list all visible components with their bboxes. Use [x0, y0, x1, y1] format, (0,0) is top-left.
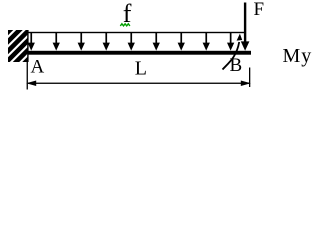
moment arrow at B	[223, 34, 243, 70]
svg-text:L: L	[135, 58, 147, 80]
beam A-B	[28, 51, 252, 55]
dimension line L	[26, 81, 251, 87]
svg-text:f: f	[123, 0, 132, 28]
distributed load arrow 2	[53, 32, 60, 51]
distributed load arrow 9	[227, 32, 234, 51]
svg-text:A: A	[31, 56, 45, 77]
distributed load arrow 5	[128, 32, 135, 51]
right extension line	[249, 68, 250, 88]
distributed load top line	[28, 32, 245, 33]
distributed load arrow 7	[178, 32, 185, 51]
distributed load arrow 1	[28, 32, 35, 51]
concentrated force F arrow	[241, 3, 250, 51]
distributed load arrow 3	[78, 32, 85, 51]
distributed load arrow 6	[153, 32, 160, 51]
svg-text:My: My	[283, 45, 313, 67]
fixed support wall hatch at A	[0, 26, 62, 66]
left extension line	[27, 62, 28, 90]
wall face vertical edge	[27, 30, 28, 62]
distributed load arrow 8	[203, 32, 210, 51]
svg-text:B: B	[230, 55, 243, 76]
green squiggle under f	[120, 24, 130, 26]
distributed load arrow 4	[103, 32, 110, 51]
svg-text:F: F	[254, 0, 265, 20]
